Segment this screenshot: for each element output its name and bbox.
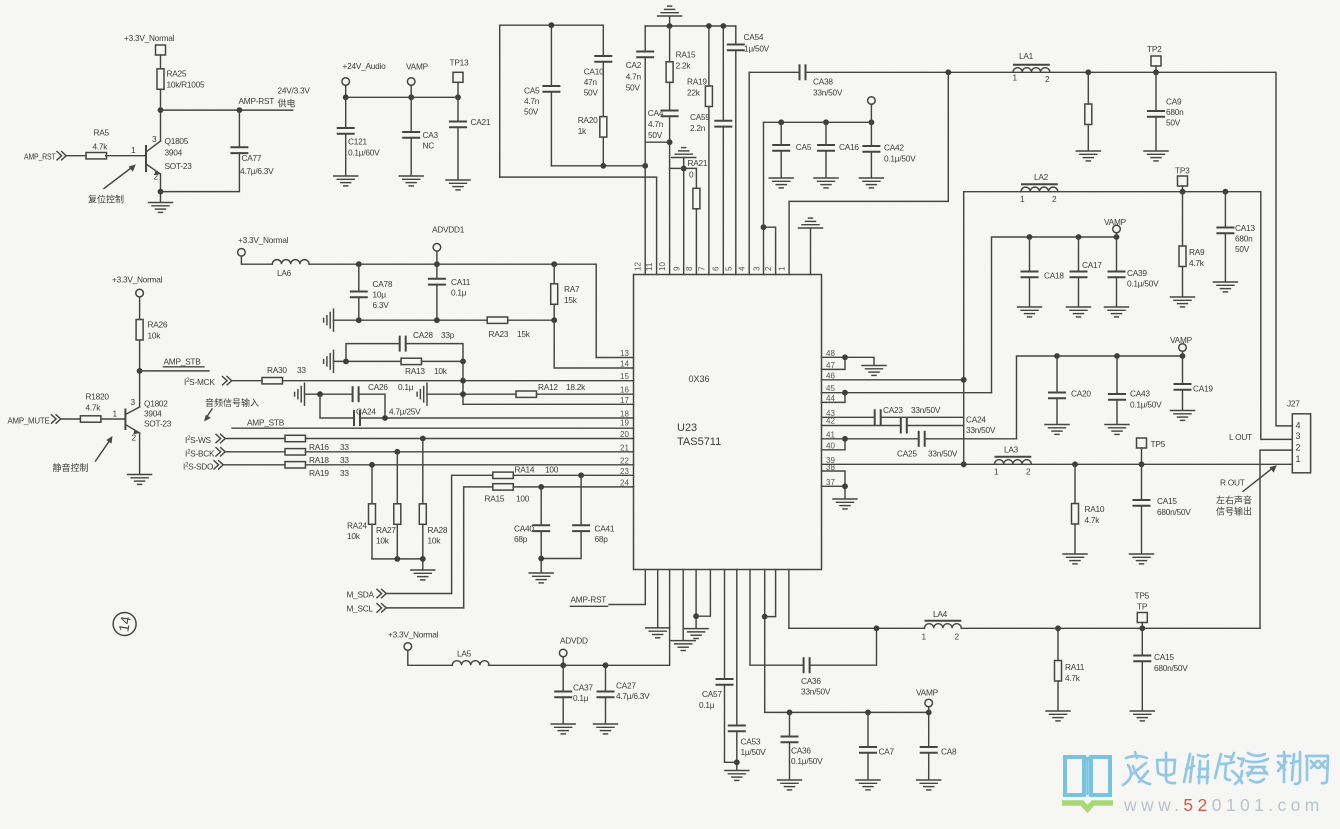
ground thermal pad [799, 218, 823, 274]
svg-text:CA8: CA8 [941, 747, 957, 757]
wire AMP_STB row to pin19 [232, 427, 634, 429]
svg-text:680n/50V: 680n/50V [1157, 507, 1191, 517]
resistor RA11 [1055, 628, 1085, 710]
node pin41 [842, 436, 848, 442]
wire pulldown bottoms [372, 558, 423, 560]
svg-text:15: 15 [620, 372, 629, 381]
svg-text:18: 18 [620, 409, 629, 418]
node branch to pin1 feed [945, 69, 951, 75]
wire pin25 AMP-RST [609, 570, 645, 605]
wire branch down to pin 1 [789, 72, 948, 274]
wire VAMP row 1 [992, 237, 1117, 393]
node RA24 top [369, 462, 375, 468]
svg-text:10k: 10k [434, 366, 448, 376]
svg-text:CA36: CA36 [791, 746, 811, 756]
svg-text:41: 41 [826, 430, 835, 439]
capacitor CA42 [862, 122, 916, 177]
resistor RA5 [86, 128, 110, 159]
svg-text:CA54: CA54 [744, 32, 764, 42]
capacitor CA3 [402, 97, 438, 175]
svg-text:LA5: LA5 [457, 649, 472, 659]
node RA19 top [706, 23, 712, 29]
ground CA3 [399, 176, 423, 186]
svg-text:CA5: CA5 [524, 86, 540, 96]
svg-text:1: 1 [113, 409, 118, 419]
inductor LA5 [452, 649, 489, 666]
ground CA42 [859, 178, 883, 188]
svg-text:RA25: RA25 [167, 69, 187, 79]
terminal +24V_Audio [342, 78, 350, 98]
node RA7 top [551, 261, 557, 267]
svg-text:10k/R1005: 10k/R1005 [167, 80, 206, 90]
node CA78 [356, 261, 362, 267]
svg-text:CA42: CA42 [884, 143, 904, 153]
ground CA9 [1144, 151, 1168, 161]
svg-text:15k: 15k [517, 329, 531, 339]
node pin46 bypass vertical [961, 377, 967, 383]
node row16 osc vertical [460, 391, 466, 397]
svg-text:信号输出: 信号输出 [1216, 506, 1252, 517]
wire LA2 row [964, 192, 1293, 440]
input chevron M_SDA [377, 589, 452, 597]
ground RA9 [1171, 297, 1195, 307]
capacitor CA19 [1174, 356, 1214, 410]
node RA27 top [394, 449, 400, 455]
svg-text:24V/3.3V: 24V/3.3V [278, 86, 311, 96]
ground CA37 [551, 724, 575, 734]
wire M_SDA vertical to row23 [452, 475, 493, 593]
wire top rail left segment [500, 25, 604, 177]
wire Q1802 emitter [139, 433, 141, 474]
wire pin33 to CA36a [750, 570, 804, 666]
terminal VAMP 2 [1179, 344, 1187, 356]
node CA19/VAMP [1180, 353, 1186, 359]
wire pin 46 [822, 379, 964, 381]
svg-text:TP3: TP3 [1175, 166, 1190, 176]
resistor (unlabeled) below LA1 out [1085, 72, 1092, 150]
capacitor CA40 [514, 487, 550, 572]
capacitor CA16 [817, 122, 859, 177]
ground pin9 group [672, 148, 696, 275]
wire BCK row to pin21 [306, 451, 634, 453]
svg-text:33n/50V: 33n/50V [813, 88, 843, 98]
svg-text:C121: C121 [348, 137, 367, 147]
ground below resistor [1076, 151, 1100, 161]
node pin45 [842, 390, 848, 396]
svg-text:CA26: CA26 [368, 382, 388, 392]
capacitor CA9 [1147, 72, 1184, 150]
svg-text:R OUT: R OUT [1220, 478, 1245, 488]
svg-text:10: 10 [658, 262, 667, 271]
node CA37 [560, 662, 566, 668]
svg-text:50V: 50V [1235, 244, 1250, 254]
inductor LA4 [922, 609, 962, 642]
wire MCK row to pin15 [283, 380, 634, 382]
svg-text:47n: 47n [584, 77, 598, 87]
svg-text:4.7k: 4.7k [1065, 673, 1081, 683]
resistor RA19 (22k) [687, 26, 712, 275]
svg-text:LA1: LA1 [1019, 51, 1034, 61]
svg-text:50V: 50V [1166, 118, 1181, 128]
wire SDO row to pin22 [306, 464, 634, 466]
svg-text:0.1μ: 0.1μ [451, 288, 467, 298]
resistor RA10 [1072, 464, 1105, 553]
node TP5 lower [1139, 625, 1145, 631]
svg-text:14: 14 [115, 615, 133, 633]
svg-text:0: 0 [689, 170, 694, 180]
svg-text:33: 33 [340, 455, 349, 465]
transistor Q1805 [106, 134, 193, 182]
svg-text:RA19: RA19 [687, 77, 707, 87]
svg-text:1: 1 [1296, 454, 1301, 464]
svg-text:6: 6 [712, 266, 721, 271]
svg-text:TP2: TP2 [1147, 44, 1162, 54]
annotation 静音控制 with arrow [53, 436, 113, 473]
ground RA11 [1046, 711, 1070, 721]
wire ground rail RA23 [334, 319, 555, 321]
capacitor C121 [337, 97, 380, 175]
svg-text:16: 16 [620, 386, 629, 395]
capacitor CA20 [1048, 356, 1091, 424]
node CA39/VAMP [1114, 234, 1120, 240]
resistor RA28 [419, 439, 448, 570]
svg-text:22k: 22k [687, 88, 701, 98]
terminal square TP5 lower [1135, 591, 1150, 629]
svg-text:CA10: CA10 [584, 67, 604, 77]
svg-text:CA59: CA59 [690, 112, 710, 122]
svg-text:CA2: CA2 [626, 60, 642, 70]
wire osc vertical to pin17 [463, 361, 634, 404]
svg-text:CA11: CA11 [451, 277, 471, 287]
svg-text:CA20: CA20 [1071, 389, 1091, 399]
wire pin36 LA4 row [789, 570, 1260, 629]
resistor RA21 (0 ohm) [684, 158, 708, 275]
node CA42 [869, 119, 875, 125]
capacitor CA38 [800, 64, 843, 97]
svg-text:SOT-23: SOT-23 [165, 161, 193, 171]
svg-text:33: 33 [340, 468, 349, 478]
svg-text:U23: U23 [677, 422, 697, 434]
node TP5 upper [1139, 461, 1145, 467]
node CA57/CA53 junction [734, 759, 740, 765]
svg-text:4: 4 [738, 266, 747, 271]
node RA28 top [420, 436, 426, 442]
svg-text:33n/50V: 33n/50V [801, 687, 831, 697]
svg-text:CA40: CA40 [514, 524, 534, 534]
svg-text:RA18: RA18 [309, 455, 329, 465]
svg-text:音频信号输入: 音频信号输入 [205, 397, 259, 408]
ground pins 47/48 [862, 366, 886, 376]
capacitor CA54 [727, 26, 770, 275]
connector J27 [1287, 399, 1311, 473]
wire pins 44/45 [822, 393, 992, 403]
svg-text:0.1μ/50V: 0.1μ/50V [791, 756, 823, 766]
wire pin27 to ADVDD row [489, 570, 670, 666]
wire J27 pin2 to LA4 row [1260, 450, 1292, 628]
wire right bypass vertical [963, 192, 965, 465]
ground RA10 [1063, 554, 1087, 564]
svg-text:6.3V: 6.3V [373, 300, 390, 310]
ground CA36b [778, 780, 802, 790]
transistor Q1802 [102, 397, 172, 443]
svg-text:2: 2 [955, 632, 960, 642]
wire M_SCL vertical to row24 [464, 487, 493, 608]
wire pin34 to VAMP bottom row [765, 570, 929, 713]
svg-text:RA30: RA30 [267, 365, 287, 375]
svg-text:RA20: RA20 [578, 115, 598, 125]
ground CA8 [917, 780, 941, 790]
input chevron I2S-BCK [216, 448, 285, 456]
svg-text:CA15: CA15 [1157, 496, 1177, 506]
svg-text:I2S-MCK: I2S-MCK [184, 377, 215, 387]
terminal ADVDD [559, 649, 567, 665]
node CA17 [1076, 234, 1082, 240]
resistor RA30 [262, 365, 306, 384]
svg-text:1: 1 [922, 632, 927, 642]
svg-text:+3.3V_Normal: +3.3V_Normal [124, 33, 175, 43]
svg-text:RA21: RA21 [688, 158, 708, 168]
node CA7 [865, 710, 871, 716]
svg-text:0.1μ/50V: 0.1μ/50V [1130, 400, 1162, 410]
svg-text:0.1μ/50V: 0.1μ/50V [1127, 279, 1159, 289]
node CA26 left [317, 391, 323, 397]
wire row24 to pin24 [513, 486, 633, 488]
wire AMP_STB stub [140, 370, 209, 372]
svg-text:CA43: CA43 [1130, 389, 1150, 399]
svg-text:Q1805: Q1805 [165, 136, 189, 146]
wire row23 to pin23 [513, 474, 633, 476]
ground CA20 [1045, 425, 1069, 435]
svg-text:AMP-RST: AMP-RST [239, 96, 275, 106]
resistor RA9 [1179, 192, 1205, 296]
svg-text:33: 33 [340, 442, 349, 452]
svg-text:CA78: CA78 [373, 279, 393, 289]
svg-text:CA13: CA13 [1235, 223, 1255, 233]
svg-text:33n/50V: 33n/50V [928, 449, 958, 459]
svg-text:0.1μ/60V: 0.1μ/60V [348, 148, 380, 158]
svg-text:J27: J27 [1287, 399, 1300, 409]
wire pin35 jog [765, 570, 776, 617]
ground CA43 [1105, 425, 1129, 435]
ground pin26 [646, 628, 670, 638]
wire pins 47/48 to ground [822, 357, 875, 369]
svg-text:CA38: CA38 [813, 77, 833, 87]
node CA41 top [578, 472, 584, 478]
capacitor CA11 [428, 264, 471, 320]
capacitor CA36 (33n) [801, 628, 877, 696]
svg-text:50V: 50V [524, 107, 539, 117]
svg-text:0.1μ: 0.1μ [699, 700, 715, 710]
svg-text:LA3: LA3 [1004, 445, 1019, 455]
ground CA53 [725, 771, 749, 781]
svg-text:1k: 1k [578, 126, 587, 136]
terminal square TP5 upper [1137, 438, 1166, 464]
wire jumper to pin2 [764, 227, 776, 274]
wire 24V rail [346, 96, 458, 98]
resistor RA25 [157, 69, 205, 90]
svg-text:RA13: RA13 [405, 366, 425, 376]
ground CA26 row [295, 383, 305, 405]
node pin9 [681, 166, 687, 172]
capacitor CA28 [400, 330, 455, 352]
wire CA28 top loop [346, 344, 463, 362]
svg-text:15k: 15k [564, 295, 578, 305]
svg-text:50V: 50V [626, 83, 641, 93]
svg-text:TP5: TP5 [1151, 439, 1166, 449]
node CA11 [434, 261, 440, 267]
node CA8/VAMP [926, 710, 932, 716]
capacitor CA24 input [354, 407, 421, 427]
svg-text:4.7μ/25V: 4.7μ/25V [389, 407, 421, 417]
ground pin28 [671, 641, 695, 651]
node RA28 bottom [420, 556, 426, 562]
resistor RA15 (2.2k) [666, 26, 696, 82]
svg-text:4.7n: 4.7n [648, 119, 664, 129]
wire WS row to pin20 [306, 438, 634, 440]
resistor RA24 [347, 465, 376, 559]
net AMP_STB label [164, 357, 205, 367]
svg-text:NC: NC [423, 141, 435, 151]
svg-text:2.2k: 2.2k [676, 61, 692, 71]
svg-text:M_SCL: M_SCL [347, 604, 374, 614]
node pin12 rail junction [642, 163, 648, 169]
svg-text:www.520101.com: www.520101.com [1123, 795, 1324, 815]
node RA13 right [460, 359, 466, 365]
wire box bottom rail to pin 12 [551, 165, 645, 167]
node C121 [343, 94, 349, 100]
svg-text:CA24: CA24 [356, 407, 376, 417]
wire emitter to CA77 bottom [161, 153, 240, 192]
svg-text:LA6: LA6 [277, 268, 292, 278]
input chevron AMP_RST [57, 152, 86, 160]
svg-text:AMP_RST: AMP_RST [24, 152, 56, 162]
ground pulldowns [411, 570, 435, 580]
resistor RA27 [376, 452, 401, 559]
svg-text:CA4: CA4 [648, 108, 664, 118]
node ground stem [667, 23, 673, 29]
svg-text:4.7n: 4.7n [524, 96, 540, 106]
svg-text:33n/50V: 33n/50V [966, 425, 996, 435]
wire ADVDD1 rail to pin13 [309, 264, 633, 357]
ground CA15 upper [1130, 554, 1154, 564]
node CA40 bottom [538, 556, 544, 562]
terminal square TP2 [1151, 56, 1161, 72]
capacitor CA39 [1108, 237, 1160, 306]
input chevron I2S-MCK [223, 377, 263, 385]
terminal square TP3 [1178, 176, 1188, 192]
wire RA13 row [334, 360, 464, 362]
svg-text:23: 23 [620, 467, 629, 476]
svg-text:13: 13 [620, 349, 629, 358]
annotation 音频信号输入 [204, 397, 259, 422]
svg-text:4: 4 [1296, 421, 1301, 431]
node LA1 out [1085, 69, 1091, 75]
capacitor CA5 (second) [772, 122, 812, 177]
svg-text:3: 3 [131, 397, 136, 407]
node AMP_STB [137, 368, 143, 374]
svg-text:68p: 68p [595, 534, 609, 544]
svg-text:2.2n: 2.2n [690, 123, 706, 133]
svg-text:21: 21 [620, 443, 629, 452]
capacitor CA13 [1216, 192, 1255, 281]
svg-text:RA27: RA27 [376, 525, 396, 535]
ground CA39 [1105, 307, 1129, 317]
ground pin29 [684, 629, 708, 639]
svg-text:静音控制: 静音控制 [53, 462, 89, 473]
node CA36a top [874, 625, 880, 631]
svg-text:TP13: TP13 [450, 58, 469, 68]
capacitor CA78 [350, 264, 393, 320]
inductor LA2 [1020, 172, 1058, 204]
wire PVDD row [764, 121, 872, 123]
svg-text:1: 1 [994, 467, 999, 477]
node MCK osc vertical [460, 378, 466, 384]
svg-text:CA5: CA5 [796, 142, 812, 152]
wire pin3 vertical [763, 122, 765, 274]
svg-text:供电: 供电 [278, 98, 296, 109]
capacitor CA7 [859, 712, 895, 779]
svg-text:4.7n: 4.7n [626, 72, 642, 82]
node CA16 [823, 119, 829, 125]
svg-text:RA5: RA5 [94, 128, 110, 138]
svg-text:3904: 3904 [165, 148, 183, 158]
resistor RA12 [516, 382, 586, 397]
capacitor CA57 on pin31 [699, 570, 737, 763]
svg-text:0.1μ: 0.1μ [573, 693, 589, 703]
wire pin29 [695, 570, 697, 628]
svg-text:10μ: 10μ [373, 290, 387, 300]
ground CA13 [1213, 282, 1237, 292]
svg-text:CA21: CA21 [471, 117, 491, 127]
svg-text:100: 100 [545, 465, 559, 475]
wire pin9 node to pin10 vertical [670, 167, 684, 169]
capacitor CA17 [1070, 237, 1103, 306]
wire Q1805 emitter [160, 174, 162, 202]
svg-text:ADVDD: ADVDD [560, 636, 588, 646]
svg-text:1μ/50V: 1μ/50V [741, 747, 767, 757]
svg-text:45: 45 [826, 384, 835, 393]
capacitor CA18 [1021, 237, 1065, 306]
node CA59 top [720, 23, 726, 29]
svg-text:2: 2 [764, 266, 773, 271]
node RA20 bottom [600, 163, 606, 169]
svg-text:1: 1 [131, 145, 136, 155]
capacitor CA25 [897, 431, 1017, 459]
node VAMP row CA36b [787, 710, 793, 716]
svg-text:RA26: RA26 [148, 320, 168, 330]
wire top rail segment 2 [645, 25, 736, 27]
node CA21 [455, 94, 461, 100]
net AMP-RST bottom label [571, 595, 608, 607]
terminal VAMP bottom [925, 699, 933, 712]
node CA5 top [549, 22, 555, 28]
svg-text:TAS5711: TAS5711 [677, 436, 721, 448]
ground Q1802 [128, 475, 152, 485]
svg-text:CA41: CA41 [595, 524, 615, 534]
terminal square +3.3V_Normal [156, 45, 166, 69]
svg-text:10k: 10k [376, 536, 390, 546]
wire pins 40/41 [822, 439, 919, 450]
wire output row A continued [806, 72, 1293, 426]
svg-text:1: 1 [778, 266, 787, 271]
svg-text:3: 3 [753, 266, 762, 271]
svg-text:RA14: RA14 [515, 465, 535, 475]
svg-text:RA15: RA15 [676, 50, 696, 60]
svg-text:7: 7 [698, 266, 707, 271]
wire RA26 to collector [139, 340, 141, 407]
node TP2 [1153, 69, 1159, 75]
svg-text:+3.3V_Normal: +3.3V_Normal [388, 630, 439, 640]
